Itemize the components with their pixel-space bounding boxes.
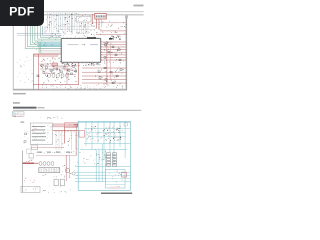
- svg-text:PDF: PDF: [9, 5, 35, 19]
